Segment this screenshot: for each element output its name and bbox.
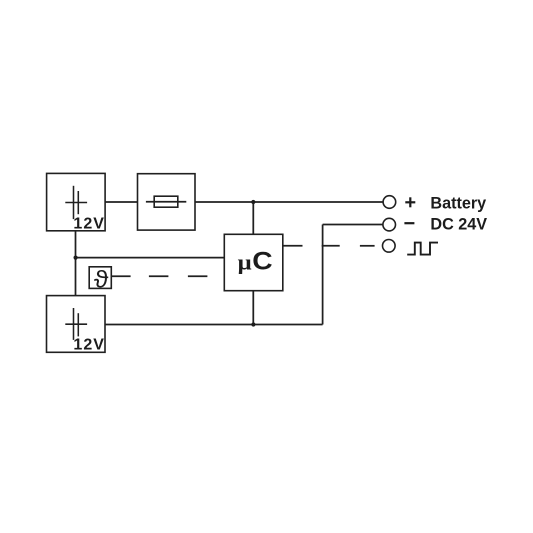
temperature sensor ϑ box [89, 267, 111, 289]
node junction on top rail [251, 200, 255, 204]
svg-text:C: C [252, 247, 272, 275]
terminal pulse output circle [383, 240, 396, 253]
wire B2 to riser corner [105, 324, 323, 326]
wire riser to DC 24V level [322, 225, 324, 325]
fuse F1 body [154, 196, 178, 207]
battery B1 long plate [73, 186, 75, 219]
wire µC bottom pin to bottom rail [252, 291, 254, 325]
label + polarity sign [405, 197, 415, 207]
node junction between batteries [74, 256, 78, 260]
terminal + Battery circle [383, 196, 396, 209]
svg-text:Battery: Battery [430, 194, 486, 212]
wire ϑ sensor lead [111, 275, 130, 277]
wire B1 to fuse F1 [105, 201, 137, 203]
wire node to µC left pin [76, 257, 225, 259]
terminal − DC 24V circle [383, 218, 396, 231]
battery B2 lead [65, 323, 87, 325]
label − polarity sign [404, 222, 414, 224]
fuse F1 box [138, 174, 196, 230]
battery B2 short plate [77, 313, 79, 336]
wire top rail to µC top pin [252, 202, 254, 234]
fuse F1 through-line [146, 201, 186, 203]
node junction on bottom rail [251, 322, 255, 326]
svg-text:ϑ: ϑ [94, 266, 109, 293]
wire dashed µC pulse output [283, 245, 303, 247]
wire dashed ϑ signal to µC [149, 275, 169, 277]
svg-text:12V: 12V [73, 216, 104, 233]
battery module B1 (12 V accumulator, top left) box [47, 173, 106, 230]
wire B1 bottom to B2 top [75, 231, 77, 296]
microcontroller U1 µC box [224, 234, 282, 290]
svg-text:μ: μ [238, 251, 252, 275]
battery module B2 (12 V accumulator, bottom left) box [47, 296, 106, 353]
wire fuse F1 to + Battery terminal [195, 201, 383, 203]
battery B1 lead [65, 202, 87, 204]
battery B2 long plate [73, 308, 75, 340]
battery B1 short plate [77, 191, 79, 214]
svg-text:12V: 12V [73, 337, 104, 354]
symbol square-wave pulse [407, 243, 438, 255]
svg-text:DC 24V: DC 24V [430, 215, 487, 233]
wire riser top to − DC 24V terminal [323, 224, 383, 226]
